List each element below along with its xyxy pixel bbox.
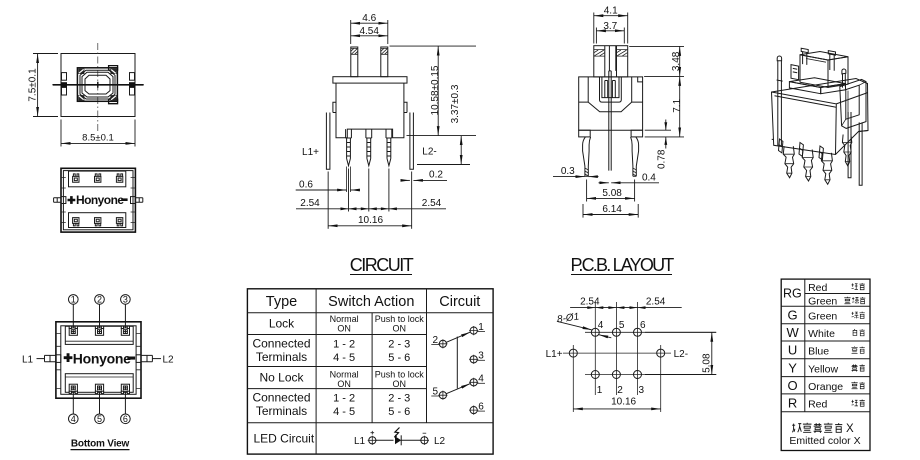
row line connected1 (247, 366, 426, 368)
stem right hatch block (617, 50, 628, 57)
PCB title underline (571, 274, 672, 276)
leader arrow to hole 4 (557, 321, 592, 330)
svg-text:2.54: 2.54 (646, 297, 666, 308)
dimension 4.54 line (351, 35, 388, 37)
svg-text:L1+: L1+ (546, 349, 563, 360)
stem outline (594, 46, 628, 77)
callout circle 5 (95, 414, 105, 424)
callout circle 1 (69, 295, 79, 305)
svg-text:3: 3 (123, 295, 128, 305)
svg-text:2: 2 (97, 295, 102, 305)
svg-text:1 - 2: 1 - 2 (333, 338, 355, 350)
dimension 0.6 line left (296, 189, 347, 191)
callout circle 3 (121, 295, 131, 305)
svg-text:1: 1 (597, 385, 603, 396)
svg-text:Connected: Connected (252, 337, 310, 351)
side clip frame (3D) (840, 79, 866, 128)
leader line terminal 6 (124, 388, 126, 414)
right side lug (135, 198, 142, 203)
top terminal plate (65, 326, 133, 344)
center line L1 column (572, 345, 574, 412)
svg-text:L2-: L2- (674, 349, 688, 360)
base slab front (3D) (789, 82, 820, 94)
color table outer border (781, 279, 870, 450)
dimension 7.5±0.1 extension top (33, 53, 58, 55)
left pin (583, 137, 591, 176)
left side lug inner (61, 197, 66, 204)
callout circle 4 (69, 414, 79, 424)
body top rim line (3D) (775, 96, 837, 108)
svg-text:3.7: 3.7 (603, 21, 617, 32)
svg-text:3: 3 (639, 385, 645, 396)
LED lead near (3D) (848, 112, 851, 178)
body left ledge (333, 102, 336, 112)
svg-text:5 - 6: 5 - 6 (388, 406, 410, 418)
svg-text:2 - 3: 2 - 3 (388, 392, 410, 404)
right lug inner (136, 355, 141, 363)
dimension 0.6 line right (350, 189, 360, 191)
bottom-view pin 5 (95, 384, 103, 393)
LED arrow mark (394, 428, 399, 438)
body front-right edge (3D) (772, 92, 868, 155)
stem slot detail (3D) (806, 56, 826, 62)
dimension 4.6 ext lines (351, 20, 388, 44)
leader line terminal 5 (99, 388, 101, 414)
back pin right (3D) (819, 146, 823, 160)
right border ticks (136, 334, 141, 389)
svg-text:Y: Y (788, 360, 797, 375)
leader line terminal 4 (72, 388, 74, 414)
terminal pin 2 top (95, 174, 101, 182)
hole L2 (657, 349, 665, 357)
lead L2 ext line (411, 172, 413, 229)
contact cup outer (600, 77, 622, 102)
button corner block bottom-left (78, 95, 84, 100)
svg-text:0.3: 0.3 (561, 166, 575, 177)
body right ledge (404, 102, 407, 112)
dimension 3.48 ext lines (629, 46, 684, 76)
column line action split (371, 313, 373, 423)
front-view pin 3 (386, 129, 392, 166)
right side lug inner (131, 197, 136, 204)
row line connected2 (247, 422, 493, 424)
svg-text:1: 1 (71, 295, 76, 305)
stem center slot (609, 46, 615, 71)
center line row bottom (585, 374, 716, 376)
center line L2 column (660, 345, 662, 412)
svg-text:Red: Red (808, 398, 827, 410)
contact cup bars (605, 81, 616, 98)
dimension 3.48 line (679, 46, 681, 76)
dimension 10.16 line (328, 225, 412, 227)
front pin 1 (3D) (783, 146, 794, 178)
svg-text:4.1: 4.1 (604, 6, 618, 17)
button frame (77, 68, 117, 102)
row line lock (247, 334, 426, 336)
side view with brand (left column middle) (54, 168, 143, 232)
P.C.B. LAYOUT section (546, 255, 717, 412)
svg-text:2.54: 2.54 (300, 198, 320, 209)
contact cup inner (602, 77, 619, 98)
left lug inner (56, 355, 61, 363)
row line R/footer (781, 411, 870, 413)
schematic terminal 5 (439, 392, 446, 399)
dimension 0.3 line right (588, 176, 598, 178)
cjk orange (851, 382, 857, 389)
right side pin barb (129, 82, 136, 87)
switch arm 5-4 (446, 384, 470, 394)
center line row top (585, 331, 716, 333)
cjk blue (851, 346, 857, 353)
svg-text:0.4: 0.4 (642, 173, 656, 184)
svg-text:White: White (808, 328, 835, 340)
body box (3D) (772, 79, 869, 155)
dimension 7.5±0.1 line (37, 54, 39, 117)
callout circle 6 (121, 414, 131, 424)
top view body outline (61, 54, 135, 117)
cjk emitted color caption (792, 424, 801, 433)
top view of switch (upper-left) (28, 43, 145, 147)
leader line terminal 2 (99, 304, 101, 331)
dimension 0.3 line left (553, 176, 585, 178)
hole 1 (591, 371, 599, 379)
LED lead L1 (326, 113, 330, 170)
bottom-view pin 3 (121, 326, 129, 335)
hole L1 (569, 349, 577, 357)
left lug (45, 355, 56, 361)
bottom view inner frame (61, 326, 136, 395)
dimension 5.08 line (711, 332, 713, 374)
skirt trapezoid (588, 102, 632, 112)
bottom-view pin 6 (121, 384, 129, 393)
dimension 8.5±0.1 line (61, 142, 135, 144)
stem box top (3D) (800, 52, 848, 61)
dimension 10.58 line (437, 46, 439, 136)
left pin tip hatch (585, 168, 588, 176)
center line column 5/2 (615, 302, 617, 395)
svg-text:ON: ON (393, 323, 407, 333)
body corner line right (632, 77, 643, 102)
svg-text:10.16: 10.16 (611, 397, 636, 408)
svg-text:0.2: 0.2 (429, 170, 443, 181)
LED lead far (3D) (859, 122, 862, 185)
back pin left (3D) (779, 139, 783, 153)
front latch block (3D) (791, 65, 799, 80)
RG sub row line (805, 293, 870, 295)
row line W/U (781, 340, 870, 342)
schematic terminal 2 (439, 340, 446, 347)
LED wire right (401, 439, 421, 441)
side clip frame inner slot (846, 85, 859, 119)
dimension 10.16 line (573, 408, 660, 410)
LED lead L2 (410, 113, 414, 170)
svg-text:3.48: 3.48 (671, 51, 682, 71)
schematic terminal 1 (470, 327, 477, 334)
left side pin block (62, 73, 67, 81)
body flange (333, 77, 407, 83)
terminal pin 4 bottom (73, 218, 79, 226)
leader line terminal 1 (72, 304, 74, 331)
stem right wall hatch (381, 48, 388, 54)
front pin 2 (3D) (802, 150, 813, 182)
right pin tip hatch (633, 168, 636, 176)
svg-text:Connected: Connected (252, 391, 310, 405)
body left foot (579, 130, 591, 137)
svg-text:10.58±0.15: 10.58±0.15 (430, 65, 441, 115)
CIRCUIT title underline (350, 274, 412, 276)
svg-text:Blue: Blue (808, 346, 829, 358)
row line Y/O (781, 376, 870, 378)
side clip inner slot line (842, 82, 866, 126)
dimension 0.78 arrows (665, 120, 667, 149)
svg-text:0.6: 0.6 (299, 179, 313, 190)
svg-text:L2-: L2- (422, 147, 436, 158)
row line RG/G (781, 305, 870, 307)
body outline (579, 77, 643, 130)
bottom terminal plate (69, 213, 126, 228)
svg-text:8.5±0.1: 8.5±0.1 (82, 133, 114, 144)
svg-text:5.08: 5.08 (701, 353, 712, 373)
lead L1 ext line (327, 172, 329, 229)
stem box right (3D) (828, 57, 848, 88)
svg-text:ON: ON (337, 323, 351, 333)
column line type/action (315, 289, 317, 454)
svg-text:Type: Type (266, 294, 297, 310)
left clip pin (3D) (777, 56, 783, 147)
left T post (3D) (801, 48, 808, 65)
schematic terminal 6 (470, 407, 477, 414)
svg-text:LED Circuit: LED Circuit (254, 432, 315, 446)
left border ticks (56, 334, 61, 389)
svg-text:1 - 2: 1 - 2 (333, 392, 355, 404)
body right foot (631, 130, 643, 137)
ext line pin tips right (417, 164, 470, 166)
minus polarity mark (127, 357, 135, 360)
dimension 4.6 line (351, 22, 388, 24)
dimension 3.37 line (460, 136, 462, 165)
body top right notch (638, 77, 643, 82)
button inner octagon (85, 75, 110, 94)
schematic terminal 4 (470, 379, 477, 386)
svg-text:0.78: 0.78 (657, 149, 668, 169)
svg-text:Bottom View: Bottom View (71, 439, 130, 450)
front view (center top) (296, 13, 476, 229)
row line header (247, 312, 493, 314)
front-view pin 2 (366, 129, 372, 166)
button corner block bottom-right (110, 95, 116, 100)
button corner block top-left (78, 69, 84, 74)
svg-text:4: 4 (598, 320, 604, 331)
row line nolock (247, 388, 426, 390)
svg-text:CIRCUIT: CIRCUIT (350, 255, 414, 275)
right lug (141, 355, 152, 361)
svg-text:4.54: 4.54 (359, 26, 379, 37)
base slab top (3D) (789, 78, 845, 88)
callout circle 2 (95, 295, 105, 305)
button center mark (95, 82, 101, 88)
svg-text:Push to lock: Push to lock (375, 369, 425, 379)
hole 3 (634, 371, 642, 379)
svg-text:Honyone: Honyone (73, 351, 131, 367)
svg-text:L2: L2 (163, 354, 175, 365)
row line G/W (781, 323, 870, 325)
svg-text:X: X (846, 423, 854, 435)
right side pin block (130, 73, 135, 81)
svg-text:O: O (788, 378, 798, 393)
dimension 4.1 ext lines (594, 13, 628, 44)
svg-text:5: 5 (619, 320, 625, 331)
stem wall inner edges (605, 46, 617, 77)
dimension 0.2 line right (413, 179, 447, 181)
svg-text:W: W (786, 325, 799, 340)
housing inner frame (63, 171, 133, 230)
svg-text:Normal: Normal (330, 369, 359, 379)
stem box front (3D) (800, 55, 828, 88)
dimension 3.7 line (596, 30, 624, 32)
center line column 6/3 (637, 302, 639, 395)
svg-text:L1+: L1+ (302, 147, 319, 158)
center LED lead (609, 71, 611, 171)
dimension 3.7 ext lines (596, 28, 624, 44)
right pin (631, 137, 639, 176)
side view (center-right top) (553, 6, 684, 218)
svg-text:Normal: Normal (330, 314, 359, 324)
svg-text:Green: Green (808, 311, 837, 323)
svg-text:2: 2 (617, 385, 623, 396)
dimension 0.4 line left (599, 182, 609, 184)
cjk green (852, 312, 859, 319)
right side pin block lower (130, 87, 135, 95)
column line action/circuit (426, 289, 428, 423)
housing outline (61, 168, 135, 232)
dimension 0.2 line left (401, 179, 410, 181)
svg-text:Terminals: Terminals (256, 350, 307, 364)
svg-text:4 - 5: 4 - 5 (333, 406, 355, 418)
pitch line arrowheads (587, 306, 645, 309)
dimension 2.54 chain line (296, 208, 446, 210)
minus polarity mark (121, 198, 127, 201)
cjk red (RG) (852, 283, 858, 289)
button outer octagon (80, 70, 115, 99)
bottom view (lower-left) (22, 295, 174, 450)
svg-text:G: G (788, 308, 798, 323)
svg-text:4: 4 (71, 414, 76, 424)
svg-text:U: U (788, 343, 797, 358)
svg-text:5: 5 (97, 414, 102, 424)
leader arrow tail lower (599, 335, 612, 338)
svg-text:2 - 3: 2 - 3 (388, 338, 410, 350)
right face pin claw (3D) (842, 135, 851, 167)
chain arrowheads (341, 207, 397, 210)
terminal pin 3 top (116, 174, 122, 182)
stem right wall (381, 47, 388, 77)
left side pin block lower (62, 87, 67, 95)
back pin mid (3D) (799, 143, 803, 157)
bottom-view pin 4 (69, 384, 77, 393)
row line O/R (781, 393, 870, 395)
cjk white (853, 329, 857, 335)
leader line terminal 3 (124, 304, 126, 331)
svg-text:ON: ON (337, 379, 351, 389)
schematic terminal 3 (470, 356, 477, 363)
svg-text:5 - 6: 5 - 6 (388, 352, 410, 364)
emitted color table (781, 279, 870, 450)
stem left hatch block (594, 50, 605, 57)
svg-text:RG: RG (783, 287, 802, 301)
svg-text:4 - 5: 4 - 5 (333, 352, 355, 364)
svg-text:5.08: 5.08 (602, 188, 622, 199)
svg-text:L2: L2 (434, 436, 446, 447)
dimension 5.08 ext lines (587, 180, 635, 202)
pin ext lines for 2.54 (349, 169, 389, 212)
stem left wall hatch (351, 48, 358, 54)
bottom-view pin 1 (69, 326, 77, 335)
left side lug (54, 198, 61, 203)
terminal pin 1 top (73, 174, 79, 182)
dimension 7.5±0.1 extension bottom (33, 116, 58, 118)
bottom terminal plate (65, 374, 133, 393)
bottom terminal plate inner line (65, 376, 133, 378)
side shaft line (53, 84, 144, 86)
LED plus mark (371, 431, 375, 435)
button right tabs (109, 66, 118, 104)
color table column divider (804, 279, 806, 412)
terminal pin 5 bottom (95, 218, 101, 226)
center line row middle (563, 352, 671, 354)
svg-text:2.54: 2.54 (422, 198, 442, 209)
center line column 4/1 (594, 302, 596, 395)
svg-text:4.6: 4.6 (362, 13, 376, 24)
row line U/Y (781, 358, 870, 360)
svg-text:No Lock: No Lock (259, 371, 304, 385)
L2 leader (152, 358, 161, 360)
right clip pin (3D) (842, 69, 846, 88)
top view horizontal center line (52, 84, 144, 86)
hole 4 (591, 328, 599, 336)
base slab right (3D) (821, 84, 846, 94)
3D perspective view (upper-right) (772, 48, 869, 185)
right T post (3D) (828, 51, 835, 71)
front-view pin 1 (346, 129, 352, 166)
dimension 0.4 line right (611, 182, 659, 184)
svg-text:Honyone: Honyone (76, 193, 124, 207)
L1 leader (37, 358, 45, 360)
svg-text:P.C.B. LAYOUT: P.C.B. LAYOUT (571, 255, 675, 275)
circuit table outer border (247, 289, 493, 454)
stem left wall (351, 47, 358, 77)
LED wire left (376, 439, 394, 441)
dimension 6.14 line (583, 214, 638, 216)
dimension 0.78 ext line (645, 129, 671, 131)
cjk red (852, 400, 858, 406)
svg-text:R: R (788, 395, 797, 410)
svg-text:Terminals: Terminals (256, 404, 307, 418)
dimension 5.08 ext top (645, 331, 716, 333)
dimension 7.1 line (679, 76, 681, 136)
hole 2 (612, 371, 620, 379)
terminal pin 6 bottom (116, 218, 122, 226)
dimension 8.5±0.1 extension left (60, 120, 62, 147)
dimension 4.1 line (594, 15, 628, 17)
hole 6 (634, 328, 642, 336)
svg-text:3.37±0.3: 3.37±0.3 (450, 84, 461, 123)
Bottom View underline (71, 449, 130, 451)
LED circuit cathode terminal (421, 437, 428, 444)
plus polarity mark (68, 196, 76, 204)
front pin 3 (3D) (821, 153, 832, 185)
button middle octagon (82, 72, 113, 97)
dimension 5.08 ext bottom (645, 374, 716, 376)
